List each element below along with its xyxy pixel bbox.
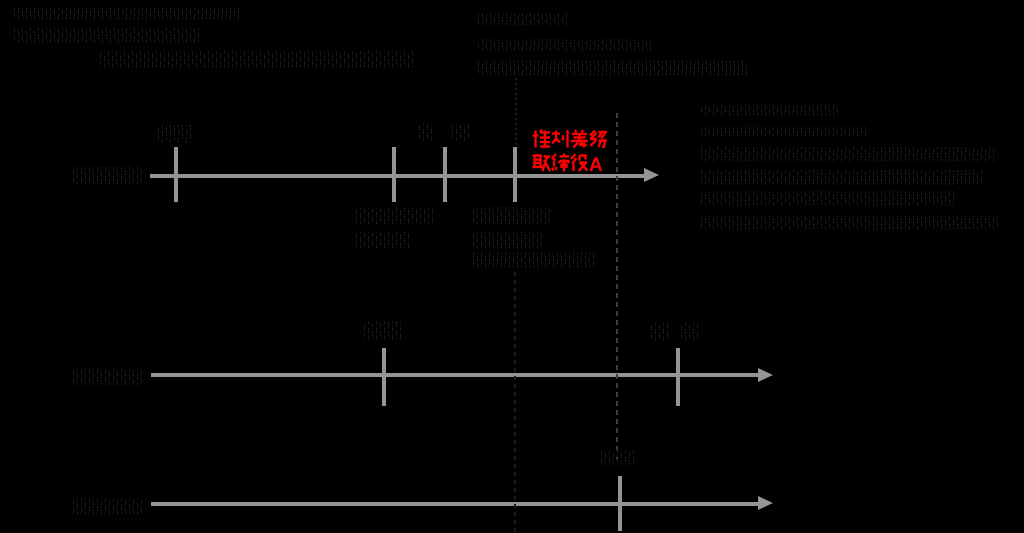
svg-text:A: A (589, 155, 603, 174)
